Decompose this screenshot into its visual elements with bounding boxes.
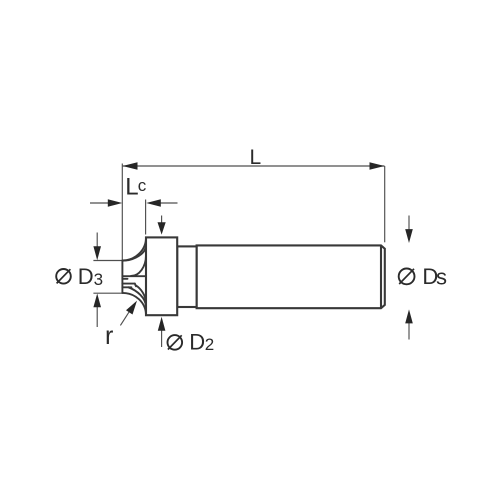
svg-text:r: r	[105, 322, 113, 350]
svg-text:L: L	[250, 146, 262, 169]
svg-text:2: 2	[205, 335, 214, 354]
svg-text:L: L	[125, 174, 138, 201]
svg-text:D: D	[78, 264, 94, 289]
svg-text:c: c	[138, 176, 147, 195]
svg-text:D: D	[189, 330, 205, 355]
svg-text:s: s	[436, 264, 447, 289]
svg-text:3: 3	[94, 270, 103, 289]
